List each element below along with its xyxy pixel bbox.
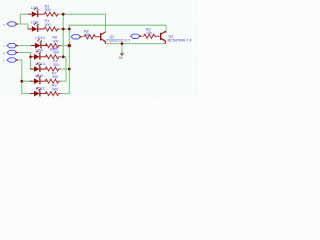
power -5V [118,52,124,60]
resistor R6 300 [45,44,60,48]
svg-text:300: 300 [45,23,51,27]
svg-text:10k: 10k [146,31,152,35]
wire row6 riser [60,57,66,81]
port P3 [7,50,18,54]
wire port1 to rows 1,2 [18,14,28,29]
LED LD6 [28,8,45,18]
wire port5 to R8 [82,36,85,38]
resistor R5 300 [45,55,60,59]
svg-text:-5V: -5V [118,56,124,60]
resistor R1 300 [44,27,59,31]
wire -5V stub [121,44,123,52]
port P2 [7,43,18,47]
resistor R7 300 [45,79,60,83]
svg-text:10k: 10k [84,33,90,37]
wire row7 riser + top bus to Q3 [60,25,166,93]
svg-text:300: 300 [50,48,56,52]
svg-text:300: 300 [52,87,58,91]
wire row3 tail [60,45,69,47]
junction dots [20,13,123,83]
svg-text:300: 300 [52,75,58,79]
resistor R3 300 [44,12,59,16]
LED LD4 [30,50,47,60]
resistor R9 10k [144,34,160,38]
svg-text:PQ2N2222-2-Y: PQ2N2222-2-Y [107,39,132,43]
svg-text:300: 300 [53,39,59,43]
svg-text:LD6: LD6 [31,5,38,10]
wire row4 tail [60,56,66,58]
wire row1 to Q2 collector [60,14,106,32]
port P6 [131,34,142,38]
transistor Q3 [161,31,166,43]
svg-text:300: 300 [53,63,59,67]
resistor R2 300 [45,92,60,96]
wire port4 to rows 6,7 [18,60,32,94]
wire row2 tail [60,28,70,30]
resistor R8 10k [84,35,100,39]
port P1 [7,22,18,26]
wire port3 to rows 4,5 [18,53,31,70]
LED LD9 [30,75,47,84]
wire trunk A [62,14,64,57]
LED LD12 [30,87,47,97]
wire port3 branch leads [31,57,32,69]
resistor R4 300 [45,67,60,71]
port P5 [71,35,82,39]
svg-text:LD12: LD12 [36,85,45,90]
svg-text:LD5: LD5 [31,20,38,25]
svg-text:LD9: LD9 [36,73,43,78]
wire port6 to R9 [142,35,144,37]
svg-text:LD14: LD14 [36,35,46,40]
svg-text:LD13: LD13 [36,61,45,66]
transistor Q2 [101,32,106,44]
wire bottom bus [106,43,166,45]
LED LD5 [28,22,45,32]
wire row5 tail [60,68,70,70]
port P4 [7,58,18,62]
svg-text:LD4: LD4 [36,47,44,52]
LED LD13 [30,62,47,72]
LED LD14 [31,39,48,49]
svg-text:300: 300 [45,8,51,12]
wire port2 to row 3 [18,45,35,47]
svg-text:BC547BW-7-F: BC547BW-7-F [168,39,193,43]
